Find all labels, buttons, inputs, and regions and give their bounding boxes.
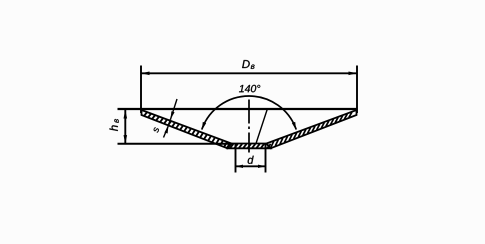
arrow arc right <box>292 122 296 130</box>
bend hatch right <box>267 144 270 148</box>
label D_v <box>242 60 250 68</box>
arrow s lower <box>164 125 168 133</box>
extension line d right <box>265 144 267 173</box>
arrow h_v top <box>124 110 128 119</box>
arrow d left <box>236 165 244 168</box>
label D_v subscript <box>251 65 255 69</box>
label 140deg <box>239 85 260 92</box>
vertical centerline (dash-dot) <box>248 100 250 153</box>
bottom plane extension line <box>118 143 231 145</box>
label h_v (rotated) <box>109 125 117 131</box>
arrow s upper <box>171 111 175 119</box>
thickness s lower leader <box>164 125 169 137</box>
arrow arc left <box>202 122 206 130</box>
extension line left for D_v <box>140 66 142 114</box>
center flat section (hatched) <box>228 144 271 149</box>
dimension line d <box>236 165 266 167</box>
label h_v subscript (rotated) <box>114 119 118 123</box>
dimension line h_v <box>124 110 126 144</box>
extension line d left <box>235 144 237 173</box>
thickness s upper leader <box>171 99 178 119</box>
right cone wall section S2 (hatched) <box>267 110 357 148</box>
arrow D_v right <box>349 72 358 76</box>
arrow h_v bottom <box>124 135 128 144</box>
bend hatch left <box>227 144 230 148</box>
left cone wall section S1 (hatched) <box>142 110 232 148</box>
arrow d right <box>258 165 266 168</box>
dimension line D_v <box>141 72 357 74</box>
rim top line <box>118 108 358 110</box>
label s (rotated) <box>153 127 159 133</box>
label d <box>248 156 254 164</box>
arrow D_v left <box>141 72 150 76</box>
extension line right for D_v <box>356 66 358 114</box>
angle leg line <box>256 109 268 144</box>
thickness s leader crossing strip <box>169 119 171 125</box>
angle arc 140deg <box>202 96 296 130</box>
